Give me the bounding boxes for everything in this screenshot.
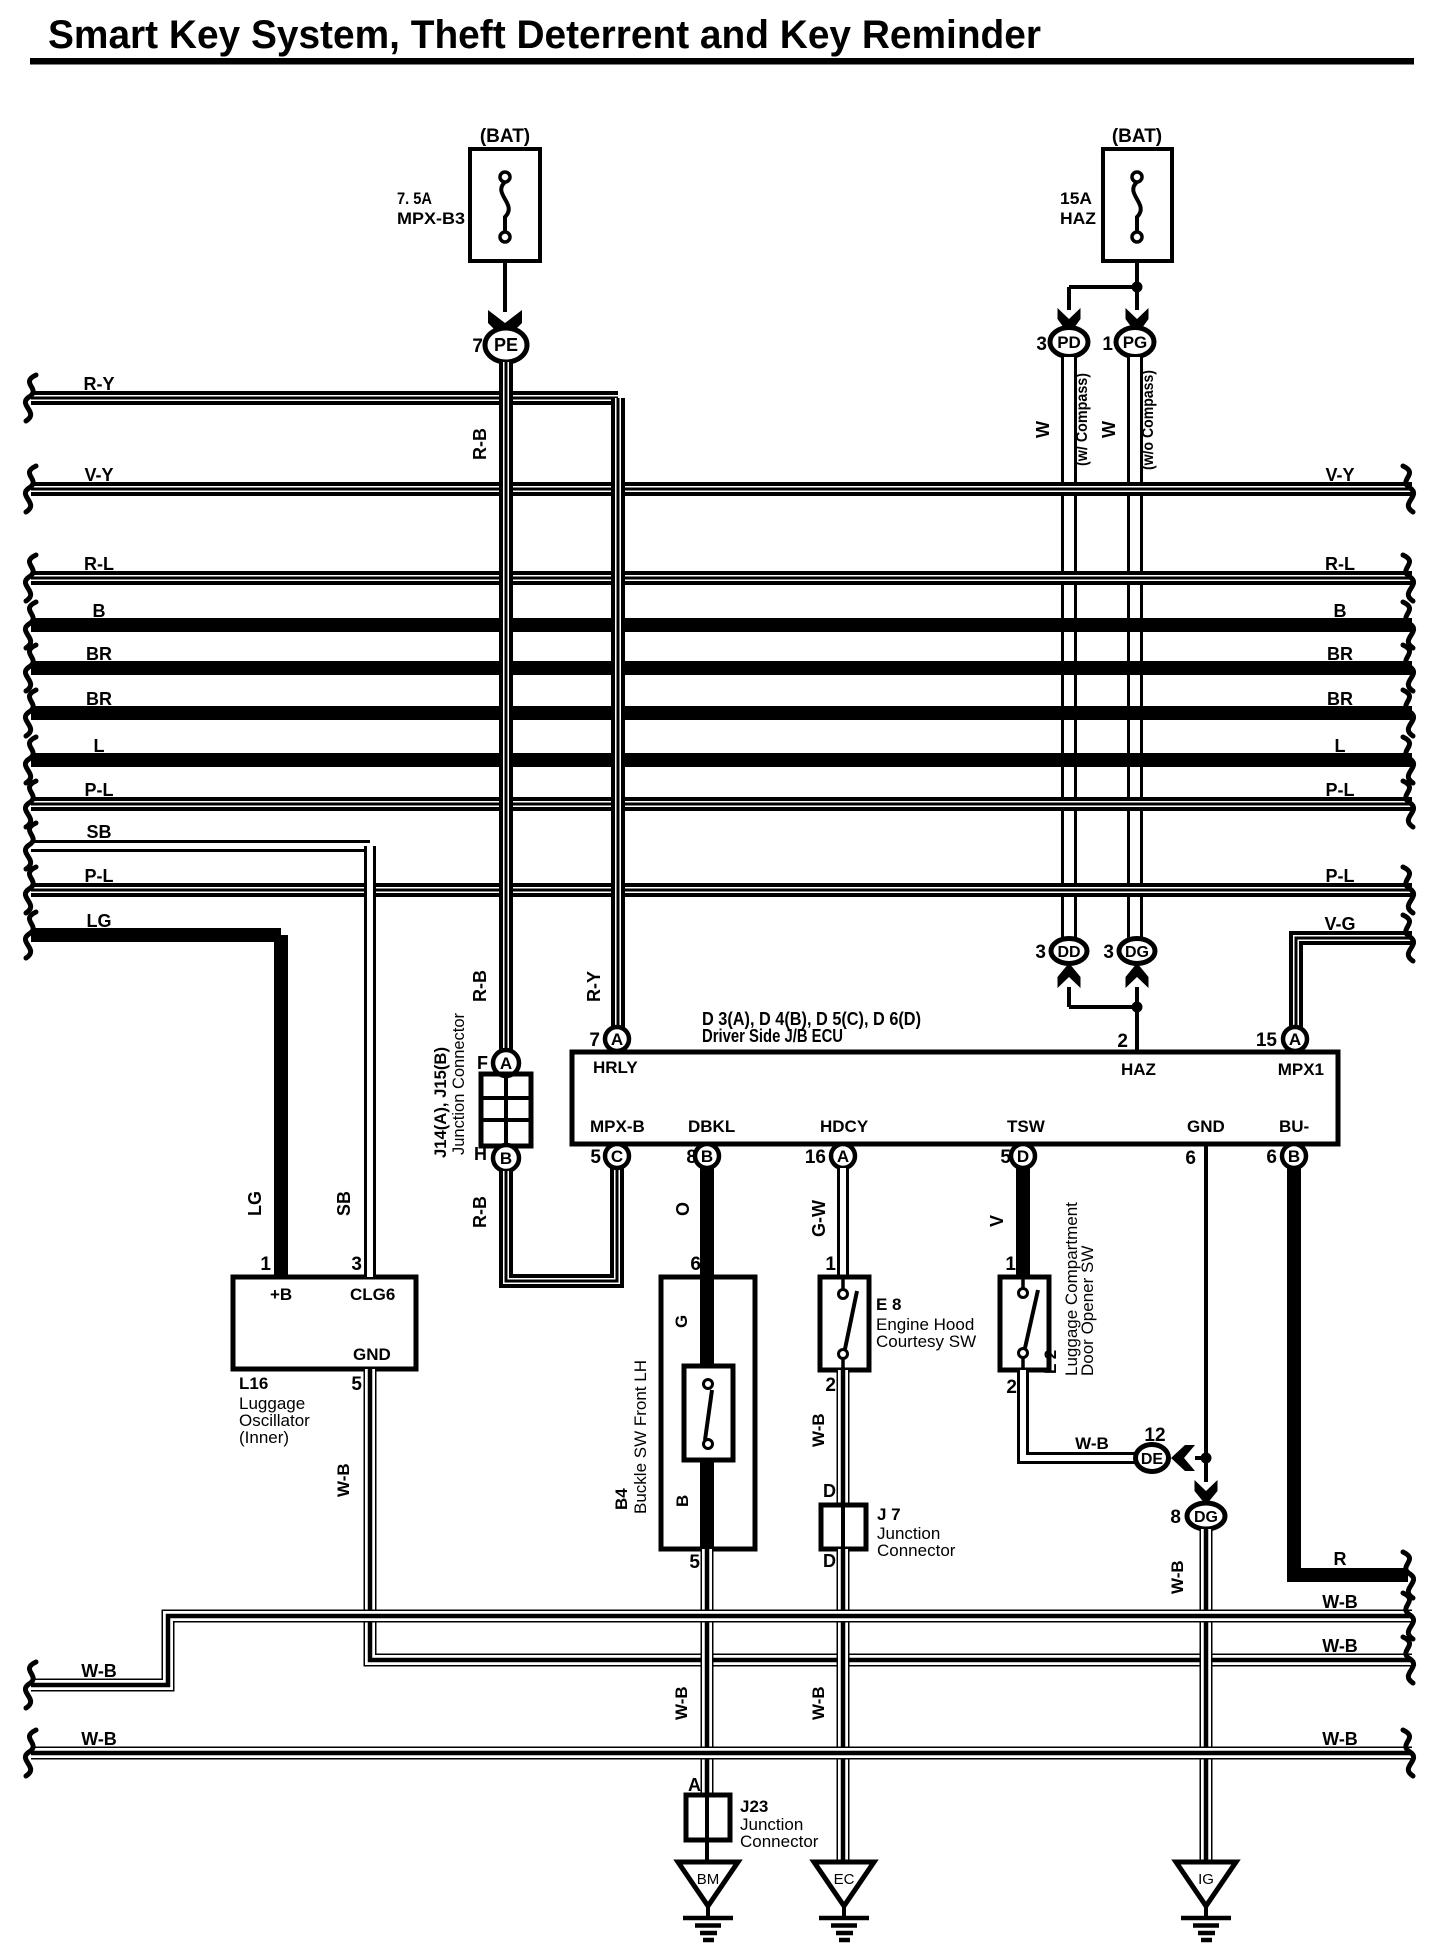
svg-text:MPX-B: MPX-B — [590, 1117, 645, 1136]
svg-text:A: A — [837, 1147, 849, 1166]
svg-text:2: 2 — [1117, 1031, 1128, 1052]
wire G-W HDCY to E8 — [809, 1168, 843, 1279]
fuse F1 7.5A MPX-B3 — [397, 126, 540, 261]
svg-text:BR: BR — [1327, 644, 1353, 664]
svg-text:EC: EC — [834, 1871, 855, 1888]
connector DD pin 3 — [1035, 939, 1087, 964]
svg-text:L 2: L 2 — [1041, 1350, 1060, 1374]
wire BU- R to right edge — [1294, 1168, 1414, 1598]
svg-text:LG: LG — [87, 911, 112, 931]
wire fuse F2 to PD/PG — [1135, 261, 1139, 287]
wire GND to DG — [1204, 1458, 1208, 1482]
svg-text:3: 3 — [1036, 334, 1047, 355]
wire V TSW to L2 — [987, 1168, 1023, 1279]
connector PG pin 1 — [1102, 328, 1154, 357]
svg-text:HRLY: HRLY — [593, 1058, 638, 1077]
svg-text:1: 1 — [1005, 1254, 1016, 1275]
svg-text:P-L: P-L — [1326, 780, 1355, 800]
svg-text:J14(A), J15(B): J14(A), J15(B) — [431, 1047, 450, 1158]
svg-text:(w/o Compass): (w/o Compass) — [1140, 370, 1157, 470]
svg-text:Door Opener SW: Door Opener SW — [1078, 1246, 1097, 1376]
svg-text:J 7: J 7 — [877, 1505, 901, 1524]
ECU pin 6 B (BU-) — [1266, 1144, 1306, 1168]
arrow into PE — [488, 310, 522, 340]
svg-text:Smart Key System, Theft Deterr: Smart Key System, Theft Deterrent and Ke… — [48, 13, 1041, 57]
ECU pin 5 C (MPX-B) — [590, 1144, 629, 1168]
svg-text:BR: BR — [86, 644, 112, 664]
svg-text:LG: LG — [245, 1191, 265, 1216]
svg-text:W-B: W-B — [334, 1463, 353, 1497]
junction connector J7 — [821, 1505, 956, 1560]
wire bus V-G to MPX1 — [1296, 914, 1414, 1029]
ground BM — [678, 1862, 738, 1940]
svg-text:R: R — [1334, 1549, 1347, 1569]
svg-text:BM: BM — [697, 1871, 720, 1888]
svg-text:F: F — [477, 1053, 488, 1073]
wire bus SB y846 — [25, 822, 370, 869]
svg-text:A: A — [688, 1775, 701, 1795]
svg-text:G-W: G-W — [809, 1200, 829, 1237]
svg-text:16: 16 — [805, 1147, 826, 1168]
svg-text:W-B: W-B — [1322, 1636, 1358, 1656]
svg-text:IG: IG — [1198, 1871, 1214, 1888]
wire W (w/ Compass) PD to DD — [1033, 357, 1091, 940]
wire R-B J14-B to MPX-B — [470, 1168, 617, 1281]
svg-text:P-L: P-L — [85, 866, 114, 886]
svg-text:C: C — [611, 1147, 623, 1166]
component L16 Luggage Oscillator — [233, 1254, 416, 1447]
arrow into PD — [1058, 308, 1081, 335]
wire SB bus to L16 CLG6 — [334, 846, 370, 1277]
svg-text:R-Y: R-Y — [584, 971, 604, 1002]
svg-text:P-L: P-L — [85, 780, 114, 800]
svg-text:B: B — [1334, 601, 1347, 621]
svg-text:HDCY: HDCY — [820, 1117, 869, 1136]
wire W (w/o Compass) PG to DG — [1099, 357, 1157, 940]
svg-text:BU-: BU- — [1279, 1117, 1309, 1136]
connector DG pin 8 — [1170, 1503, 1225, 1529]
svg-text:W-B: W-B — [1075, 1434, 1109, 1453]
svg-text:HAZ: HAZ — [1121, 1060, 1156, 1079]
svg-text:(BAT): (BAT) — [480, 126, 530, 147]
svg-text:BR: BR — [1327, 689, 1353, 709]
svg-text:DG: DG — [1125, 944, 1149, 961]
svg-text:V-Y: V-Y — [1325, 465, 1354, 485]
svg-text:B: B — [1288, 1147, 1300, 1166]
svg-text:+B: +B — [270, 1285, 292, 1304]
junction connector J14/J15 — [431, 1013, 531, 1171]
svg-text:DD: DD — [1057, 944, 1080, 961]
svg-text:P-L: P-L — [1326, 866, 1355, 886]
connector PE pin 7 — [472, 328, 527, 362]
svg-text:BR: BR — [86, 689, 112, 709]
wire R-B PE to J14 — [470, 362, 506, 1052]
connector DE pin 12 — [1136, 1425, 1169, 1472]
wire bus W-B bottom 1 — [25, 1592, 1413, 1708]
ECU pin 5 D (TSW) — [1000, 1144, 1035, 1168]
svg-text:W-B: W-B — [81, 1729, 117, 1749]
wire bus LG y935 — [25, 911, 281, 958]
svg-text:L: L — [94, 736, 105, 756]
svg-text:3: 3 — [1035, 942, 1046, 963]
svg-text:B: B — [500, 1149, 512, 1168]
wire GND down — [1204, 1144, 1208, 1458]
svg-text:DE: DE — [1141, 1451, 1164, 1468]
svg-text:MPX-B3: MPX-B3 — [397, 209, 465, 228]
wire O inside B4 — [700, 1279, 714, 1368]
wire W-B E8 to J7 — [809, 1370, 843, 1505]
svg-text:R-L: R-L — [84, 554, 114, 574]
svg-text:R-B: R-B — [470, 1196, 490, 1228]
svg-text:7. 5A: 7. 5A — [397, 189, 432, 208]
svg-text:E 8: E 8 — [876, 1295, 902, 1314]
svg-text:W-B: W-B — [81, 1661, 117, 1681]
svg-text:PD: PD — [1057, 333, 1081, 352]
svg-text:15A: 15A — [1060, 189, 1092, 208]
wire W-B L2 to DE — [1006, 1370, 1136, 1458]
svg-text:A: A — [1289, 1030, 1301, 1049]
junction dot at fuse F2 branch — [1132, 282, 1143, 293]
svg-text:L: L — [1335, 736, 1346, 756]
wire bus V-Y y489 — [25, 465, 1413, 512]
arrow into DD — [1058, 963, 1081, 988]
svg-text:PE: PE — [494, 335, 518, 355]
ECU pin 8 B (DBKL) — [686, 1144, 719, 1168]
wire bus BR y668 — [25, 644, 1413, 691]
wire DE arrow to GND line — [1195, 1456, 1206, 1460]
svg-text:GND: GND — [1187, 1117, 1225, 1136]
arrow into PG — [1126, 308, 1149, 335]
svg-text:3: 3 — [351, 1254, 362, 1275]
svg-text:A: A — [500, 1054, 512, 1073]
ground IG — [1176, 1862, 1236, 1940]
svg-text:TSW: TSW — [1007, 1117, 1046, 1136]
wire bus W-B bottom 2 — [25, 1729, 1413, 1776]
svg-text:W-B: W-B — [809, 1413, 828, 1447]
svg-text:R-B: R-B — [470, 970, 490, 1002]
svg-text:V: V — [987, 1215, 1007, 1227]
svg-text:D: D — [823, 1551, 836, 1571]
svg-text:(BAT): (BAT) — [1112, 126, 1162, 147]
arrow into DG lower — [1195, 1480, 1218, 1505]
svg-text:MPX1: MPX1 — [1278, 1060, 1324, 1079]
svg-text:DBKL: DBKL — [688, 1117, 735, 1136]
connector PD pin 3 — [1036, 328, 1088, 357]
svg-text:R-B: R-B — [470, 428, 490, 460]
svg-text:HAZ: HAZ — [1060, 209, 1096, 228]
svg-text:B4: B4 — [612, 1488, 631, 1510]
ground EC — [814, 1862, 874, 1940]
fuse F2 15A HAZ — [1060, 126, 1172, 261]
svg-text:7: 7 — [472, 336, 483, 357]
svg-text:6: 6 — [1185, 1148, 1196, 1169]
svg-text:R-Y: R-Y — [84, 374, 115, 394]
arrow into DG — [1126, 963, 1149, 988]
wire O DBKL to B4 — [673, 1168, 707, 1279]
svg-text:V-Y: V-Y — [84, 465, 113, 485]
svg-text:W: W — [1099, 421, 1119, 438]
svg-text:8: 8 — [1170, 1507, 1181, 1528]
svg-text:1: 1 — [825, 1254, 836, 1275]
connector DG pin 3 — [1103, 939, 1155, 964]
svg-text:D: D — [823, 1481, 836, 1501]
svg-text:DG: DG — [1194, 1509, 1218, 1526]
svg-text:6: 6 — [1266, 1147, 1277, 1168]
svg-text:A: A — [611, 1030, 623, 1049]
ECU Driver Side J/B box — [572, 1009, 1338, 1144]
svg-text:B: B — [673, 1495, 692, 1507]
ECU pin 15 A (MPX1) — [1256, 1027, 1307, 1051]
svg-text:W-B: W-B — [1322, 1592, 1358, 1612]
wire bus R-Y y398 — [25, 374, 618, 421]
svg-text:6: 6 — [690, 1254, 701, 1275]
svg-text:Courtesy SW: Courtesy SW — [876, 1332, 976, 1351]
junction dot HAZ branch — [1132, 1002, 1143, 1013]
arrow into DE — [1171, 1445, 1195, 1471]
svg-text:1: 1 — [1102, 334, 1113, 355]
wire bus P-L y804 — [25, 780, 1413, 827]
wire bus R-L y578 — [25, 554, 1413, 601]
svg-text:(Inner): (Inner) — [239, 1428, 289, 1447]
component E8 Engine Hood Courtesy SW — [820, 1277, 976, 1370]
svg-text:L16: L16 — [239, 1374, 268, 1393]
ECU pin 7 A (HRLY) — [589, 1027, 629, 1051]
wire W-B J7 to EC ground — [809, 1549, 843, 1863]
wire W-B L16 GND to bus — [334, 1369, 1414, 1683]
svg-text:Junction Connector: Junction Connector — [449, 1013, 468, 1155]
junction dot GND/DE — [1201, 1453, 1212, 1464]
svg-text:2: 2 — [825, 1375, 836, 1396]
svg-text:5: 5 — [351, 1374, 362, 1395]
svg-text:B: B — [93, 601, 106, 621]
svg-text:3: 3 — [1103, 942, 1114, 963]
wire LG bus to L16 +B — [245, 935, 281, 1277]
wire W-B DG to IG ground — [1168, 1529, 1206, 1863]
svg-text:CLG6: CLG6 — [350, 1285, 395, 1304]
svg-text:Connector: Connector — [877, 1541, 956, 1560]
wire B inside B4 — [700, 1460, 714, 1549]
wire fuse F1 to PE — [503, 261, 507, 312]
title — [30, 13, 1414, 65]
svg-text:D: D — [1017, 1147, 1029, 1166]
junction connector J23 — [686, 1775, 819, 1851]
svg-text:W-B: W-B — [1168, 1560, 1187, 1594]
svg-text:H: H — [474, 1144, 487, 1164]
wire W-B B4 to J23 — [672, 1549, 707, 1795]
svg-text:15: 15 — [1256, 1030, 1278, 1051]
wire bus B y625 — [25, 601, 1413, 648]
svg-text:(w/ Compass): (w/ Compass) — [1074, 373, 1091, 466]
component L2 Luggage Compartment Door Opener SW — [1000, 1202, 1097, 1376]
svg-text:V-G: V-G — [1324, 914, 1355, 934]
wire bus L y760 — [25, 736, 1413, 783]
svg-text:Buckle SW Front LH: Buckle SW Front LH — [631, 1360, 650, 1514]
svg-text:5: 5 — [590, 1147, 601, 1168]
svg-text:5: 5 — [689, 1552, 700, 1573]
wire J23 to BM ground — [705, 1840, 709, 1863]
ECU pin 16 A (HDCY) — [805, 1144, 855, 1168]
wire bus P-L y890 — [25, 866, 1413, 913]
svg-text:O: O — [673, 1202, 693, 1216]
wire R-Y vertical to HRLY — [584, 398, 618, 1029]
svg-text:W: W — [1033, 421, 1053, 438]
svg-text:PG: PG — [1123, 333, 1148, 352]
svg-text:J23: J23 — [740, 1797, 768, 1816]
svg-text:Driver Side J/B ECU: Driver Side J/B ECU — [702, 1026, 843, 1046]
svg-text:1: 1 — [260, 1254, 271, 1275]
svg-text:W-B: W-B — [672, 1686, 691, 1720]
component B4 Buckle SW Front LH — [612, 1277, 755, 1549]
svg-text:SB: SB — [334, 1191, 354, 1216]
svg-text:W-B: W-B — [809, 1686, 828, 1720]
svg-text:W-B: W-B — [1322, 1729, 1358, 1749]
svg-text:B: B — [701, 1147, 713, 1166]
wire HAZ pin 2 to DD/DG — [1069, 987, 1137, 1052]
svg-text:SB: SB — [86, 822, 111, 842]
svg-text:2: 2 — [1006, 1377, 1017, 1398]
svg-text:GND: GND — [353, 1345, 391, 1364]
svg-text:G: G — [672, 1315, 691, 1328]
wire bus BR y713 — [25, 689, 1413, 736]
svg-text:R-L: R-L — [1325, 554, 1355, 574]
switch in B4 — [684, 1366, 733, 1460]
svg-text:Connector: Connector — [740, 1832, 819, 1851]
svg-text:7: 7 — [589, 1030, 600, 1051]
